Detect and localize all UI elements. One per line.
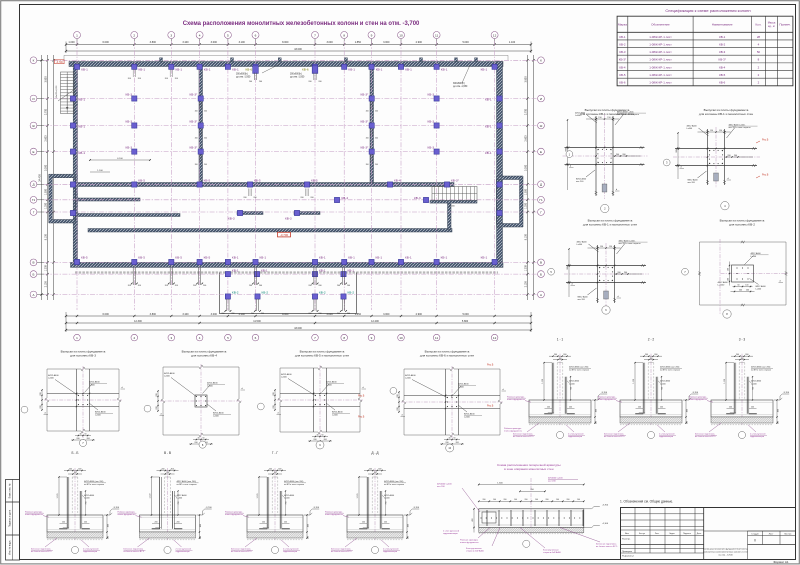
svg-text:Стадия: Стадия [751, 534, 759, 536]
svg-text:100: 100 [493, 499, 496, 501]
svg-text:Г1: Г1 [32, 198, 36, 202]
svg-text:4Ø12 А400: 4Ø12 А400 [577, 241, 588, 244]
axis bubble 4 bottom [196, 334, 203, 341]
svg-text:200: 200 [156, 406, 158, 409]
svg-text:для колонны КВ-4: для колонны КВ-4 [191, 354, 217, 358]
svg-text:2.700: 2.700 [44, 108, 47, 115]
svg-text:8Ø12 А400: 8Ø12 А400 [213, 412, 224, 415]
detail bubble 1b [601, 204, 609, 212]
svg-text:КВ-1: КВ-1 [441, 68, 448, 72]
svg-text:6: 6 [255, 33, 257, 37]
svg-text:L=600: L=600 [95, 415, 102, 417]
svg-text:8Ø12 А400: 8Ø12 А400 [576, 178, 587, 181]
svg-text:L=400: L=400 [177, 498, 184, 500]
grid axis row К [44, 59, 537, 61]
svg-text:по ВП в теле стержня: по ВП в теле стержня [177, 484, 197, 486]
bottom overall dimension [66, 329, 531, 331]
top overall dimension line [66, 50, 531, 52]
svg-text:400: 400 [595, 409, 597, 412]
section axis sec 3-3 [741, 354, 743, 425]
svg-text:3.300: 3.300 [524, 164, 527, 171]
svg-text:КВ-4: КВ-4 [719, 65, 726, 69]
svg-text:100: 100 [514, 499, 517, 501]
axis bubble К right [538, 57, 545, 64]
svg-text:200: 200 [195, 164, 198, 166]
axis bubble 12 bottom [491, 334, 498, 341]
svg-text:-3,700: -3,700 [602, 505, 609, 507]
svg-text:-3,700: -3,700 [601, 392, 608, 394]
axis bubble Д right [538, 181, 545, 188]
svg-text:200: 200 [249, 285, 252, 287]
svg-text:2 слоя рулонной: 2 слоя рулонной [568, 433, 583, 436]
svg-text:L=600: L=600 [326, 385, 333, 387]
svg-text:200: 200 [138, 78, 141, 80]
svg-text:200: 200 [204, 111, 207, 113]
svg-text:Б: Б [540, 272, 542, 276]
svg-text:200: 200 [310, 197, 313, 199]
svg-text:КВ-3*: КВ-3* [190, 145, 199, 149]
svg-text:1.200: 1.200 [44, 265, 47, 272]
svg-text:200: 200 [204, 138, 207, 140]
svg-text:200: 200 [193, 285, 196, 287]
svg-text:2: 2 [133, 33, 135, 37]
svg-text:КВ-4: КВ-4 [342, 196, 349, 200]
plan detail bubble KV-6 left [390, 387, 397, 394]
svg-text:6.000: 6.000 [103, 313, 110, 316]
section top dims sec V-V [157, 470, 179, 472]
svg-text:стержни 4хØ А400: стержни 4хØ А400 [466, 550, 485, 553]
svg-text:200: 200 [262, 522, 265, 524]
svg-text:Рис.В: Рис.В [762, 174, 769, 177]
title block [621, 508, 796, 560]
schema rebar bars [486, 510, 488, 526]
svg-text:200: 200 [397, 394, 399, 397]
svg-text:Ж: Ж [32, 124, 35, 128]
svg-text:L=400: L=400 [384, 498, 391, 500]
section rebar sec 2-2 [642, 363, 644, 414]
svg-text:4Ø12 А400 (шаг 200): 4Ø12 А400 (шаг 200) [751, 366, 771, 369]
svg-text:4Ø12 А400: 4Ø12 А400 [575, 112, 586, 115]
svg-text:КВ-1: КВ-1 [619, 35, 626, 39]
svg-text:8Ø12 А400: 8Ø12 А400 [578, 296, 589, 299]
axis bubble 5 bottom [225, 334, 232, 341]
section bubble sec B-B [71, 546, 78, 553]
svg-text:КВ-5: КВ-5 [204, 256, 211, 260]
svg-text:плиты фундамента: плиты фундамента [507, 398, 526, 401]
grid axis 12 [494, 41, 496, 310]
svg-text:КВ-1: КВ-1 [348, 68, 355, 72]
svg-text:КВ-3: КВ-3 [126, 92, 133, 96]
interior wall stub G 1 [237, 212, 263, 215]
svg-text:1-08Ж-КР-1 лист: 1-08Ж-КР-1 лист [649, 58, 672, 62]
svg-text:гидроизоляции: гидроизоляции [283, 551, 297, 553]
specification table [617, 16, 793, 86]
svg-text:L=400: L=400 [751, 383, 758, 385]
axis bubble 1 top [76, 39, 78, 44]
detail bubble 3a [548, 268, 555, 275]
plan detail bubble KV-5 bottom [316, 441, 324, 449]
svg-text:И: И [540, 97, 542, 101]
axis bubble 9 bottom [368, 334, 375, 341]
svg-text:3.800: 3.800 [150, 313, 157, 316]
svg-text:Наименование: Наименование [712, 23, 733, 27]
interior wall vertical axis 4 [199, 67, 203, 183]
grid axis 3 [170, 41, 172, 310]
svg-text:200: 200 [729, 407, 732, 409]
svg-text:2 слоя рулонной: 2 слоя рулонной [83, 548, 98, 551]
svg-text:200: 200 [554, 354, 557, 356]
grid axis 6 [255, 41, 257, 310]
svg-text:КВ-3: КВ-3 [428, 145, 435, 149]
svg-text:60: 60 [322, 435, 324, 437]
svg-text:из бетона класса В7.5: из бетона класса В7.5 [231, 551, 252, 553]
svg-text:300х600(h): 300х600(h) [453, 83, 465, 85]
dim stubs top wall axes 2 3 [132, 70, 134, 78]
interior wall stub G 2 [294, 212, 320, 215]
svg-text:200: 200 [318, 81, 321, 83]
svg-text:3: 3 [170, 33, 172, 37]
axis bubble Ж right [538, 122, 545, 129]
svg-text:КВ-3*: КВ-3* [719, 58, 727, 62]
section notes sec G-G [245, 538, 257, 547]
svg-text:100: 100 [407, 536, 409, 539]
svg-text:3.000: 3.000 [383, 41, 390, 44]
svg-text:200: 200 [249, 81, 252, 83]
section top dims sec 2-2 [640, 355, 662, 357]
svg-text:L=600: L=600 [213, 416, 220, 418]
svg-text:4Ø12 А400: 4Ø12 А400 [751, 252, 762, 255]
svg-text:Схема расположения монолитных: Схема расположения монолитных железобето… [183, 20, 420, 27]
svg-text:60: 60 [738, 285, 740, 287]
svg-text:1.100: 1.100 [509, 41, 516, 44]
svg-text:3.300: 3.300 [44, 164, 47, 171]
section notes sec D-D [345, 538, 357, 547]
svg-text:КВ-3: КВ-3 [414, 196, 421, 200]
svg-text:4Ø12 А400: 4Ø12 А400 [89, 381, 100, 384]
svg-text:для колонны КВ-3: для колонны КВ-3 [70, 354, 96, 358]
svg-text:200: 200 [300, 197, 303, 199]
svg-text:Рис.Б: Рис.Б [487, 405, 494, 408]
columns interior axis 2 [132, 96, 137, 101]
axis bubble И right [538, 95, 545, 102]
svg-text:КВ-5: КВ-5 [254, 179, 261, 183]
svg-text:L=600: L=600 [751, 256, 758, 258]
svg-text:4Ø12 А400: 4Ø12 А400 [458, 383, 469, 386]
section elevation mark sec 2-2 [683, 399, 689, 401]
axis bubble 3 top [170, 39, 172, 44]
svg-text:В: В [32, 261, 34, 265]
svg-text:8Ø12 А400: 8Ø12 А400 [464, 413, 475, 416]
axis bubble А left [37, 294, 44, 296]
svg-text:КВ-2: КВ-2 [232, 291, 239, 295]
svg-text:-3,700: -3,700 [783, 392, 790, 394]
axis bubble 6 top [255, 39, 257, 44]
svg-text:2.100: 2.100 [524, 281, 527, 288]
svg-text:КВ-3: КВ-3 [228, 217, 235, 221]
detail 4 leaders [745, 256, 754, 265]
svg-text:№док: №док [669, 532, 674, 535]
svg-text:из бетона класса В7.5: из бетона класса В7.5 [513, 436, 534, 438]
rebar outlets top wall big columns [253, 73, 255, 80]
detail bubble 2a [663, 159, 670, 166]
grid axis 8 [343, 41, 345, 310]
svg-text:200: 200 [313, 439, 316, 441]
svg-text:КВ-1: КВ-1 [376, 68, 383, 72]
svg-text:200: 200 [253, 197, 256, 199]
svg-text:300х600(h): 300х600(h) [236, 74, 248, 76]
svg-text:гидроизоляции: гидроизоляции [176, 551, 190, 553]
svg-text:на отм. -3,700: на отм. -3,700 [718, 555, 733, 557]
section slab sec 3-3 [711, 400, 773, 417]
detail 4 column square [732, 265, 754, 282]
section bedding sec 1-1 [529, 417, 591, 423]
svg-text:КВ-1: КВ-1 [232, 269, 239, 273]
svg-text:4Ø12 А400: 4Ø12 А400 [281, 373, 292, 376]
title block stage cells [747, 531, 749, 545]
svg-text:2 - 2: 2 - 2 [648, 338, 655, 342]
svg-text:3.000: 3.000 [326, 41, 333, 44]
svg-text:Спецификация к схеме расположе: Спецификация к схеме расположения колонн [665, 8, 750, 13]
svg-text:в зоне опирания монолитных сте: в зоне опирания монолитных стен [504, 467, 554, 471]
svg-text:-3,700: -3,700 [413, 507, 420, 509]
svg-text:200: 200 [62, 522, 65, 524]
svg-text:Е: Е [540, 150, 542, 154]
section slab sec D-D [347, 515, 403, 532]
svg-text:Листов: Листов [784, 534, 792, 536]
section rebar sec 1-1 [551, 363, 553, 414]
svg-text:плиты фундамента: плиты фундамента [118, 513, 137, 516]
svg-text:1-08Ж-КР-1 лист: 1-08Ж-КР-1 лист [649, 42, 672, 46]
svg-text:200: 200 [84, 522, 87, 524]
detail drawing vypusk KV-1 sten 2 [675, 148, 757, 150]
svg-text:160: 160 [727, 278, 729, 281]
plan detail bubble KV-6 bottom [446, 444, 454, 452]
svg-text:150: 150 [609, 246, 612, 248]
svg-text:L=400: L=400 [569, 383, 576, 385]
svg-text:100: 100 [307, 536, 309, 539]
section axis sec D-D [374, 468, 376, 540]
svg-text:Е: Е [32, 150, 34, 154]
svg-text:КВ-6: КВ-6 [246, 68, 253, 72]
svg-text:200: 200 [165, 285, 168, 287]
svg-text:Б - Б: Б - Б [71, 451, 78, 455]
svg-text:шаг 200 в теле стержня: шаг 200 в теле стержня [729, 127, 751, 129]
svg-text:240: 240 [739, 290, 742, 292]
svg-text:1.120: 1.120 [357, 494, 359, 499]
svg-text:8Ø12 А400: 8Ø12 А400 [95, 411, 106, 414]
svg-text:Г - Г: Г - Г [272, 451, 279, 455]
svg-text:для колонны КВ-6 и монолитных: для колонны КВ-6 и монолитных стен [420, 354, 474, 358]
svg-text:КВ-3: КВ-3 [126, 145, 133, 149]
svg-text:4Ø12 А400 (шаг 200): 4Ø12 А400 (шаг 200) [284, 480, 304, 483]
svg-text:КВ-1: КВ-1 [261, 269, 268, 273]
svg-text:200: 200 [504, 499, 507, 501]
grid axis row Г1 [44, 199, 537, 201]
svg-text:-3,700: -3,700 [280, 233, 289, 237]
section bedding sec 3-3 [711, 417, 773, 423]
axis bubble 6 bottom [252, 334, 259, 341]
plan detail bubble KV-4 left [144, 405, 151, 412]
svg-text:КВ-2: КВ-2 [319, 291, 326, 295]
svg-text:5.000: 5.000 [462, 41, 469, 44]
svg-text:200: 200 [76, 438, 79, 440]
detail bubble 1a [566, 151, 573, 158]
svg-text:100: 100 [577, 499, 580, 501]
plan detail bubble KV-4 bottom [199, 441, 206, 448]
section axis sec G-G [274, 468, 276, 540]
elevation mark centre [278, 232, 291, 237]
elevation mark top left [55, 60, 65, 64]
svg-text:1.500: 1.500 [44, 188, 47, 195]
svg-text:4Ø12 А400 (шаг 200): 4Ø12 А400 (шаг 200) [569, 366, 589, 369]
schema left dims [473, 509, 475, 533]
section elevation mark sec G-G [304, 514, 310, 516]
svg-text:43.000: 43.000 [294, 48, 302, 51]
svg-text:КВ-1: КВ-1 [79, 125, 86, 129]
svg-text:КВ-1: КВ-1 [405, 256, 412, 260]
svg-text:КВ-3*: КВ-3* [190, 92, 199, 96]
grid axis 10 [400, 41, 402, 310]
svg-text:700: 700 [86, 502, 88, 505]
section bubble sec D-D [371, 546, 378, 553]
axis bubble Е right [538, 148, 545, 155]
svg-text:КВ-1: КВ-1 [719, 35, 726, 39]
svg-text:11.500: 11.500 [253, 320, 261, 323]
svg-text:200: 200 [736, 354, 739, 356]
axis bubble 2 bottom [131, 334, 138, 341]
columns interior axis 11 [434, 96, 439, 101]
svg-text:200: 200 [273, 405, 275, 408]
svg-text:Взам. инв. №: Взам. инв. № [9, 483, 12, 498]
svg-text:КВ-1: КВ-1 [204, 68, 211, 72]
svg-text:60: 60 [80, 434, 82, 436]
svg-text:КВ-3: КВ-3 [619, 50, 626, 54]
axis bubble 12 top [494, 39, 496, 44]
svg-text:шаг 200: шаг 200 [578, 299, 586, 301]
svg-text:шаг 200 в теле стержня: шаг 200 в теле стержня [617, 114, 639, 116]
grid axis row Г [44, 211, 537, 213]
svg-text:плиты фундамента: плиты фундамента [25, 513, 44, 516]
svg-text:плиты фундамента: плиты фундамента [225, 513, 244, 516]
grid axis row А [44, 294, 537, 296]
svg-text:L=600: L=600 [332, 415, 339, 417]
svg-text:КВ-3*: КВ-3* [190, 119, 199, 123]
grid axis 11 [436, 41, 438, 310]
svg-text:КВ-3: КВ-3 [285, 217, 292, 221]
section slab sec B-B [47, 515, 103, 532]
svg-text:200: 200 [483, 499, 486, 501]
svg-text:150: 150 [607, 117, 610, 119]
svg-text:Формат А1: Формат А1 [773, 560, 788, 564]
stair arrow top left [66, 76, 68, 110]
svg-text:3 - 3: 3 - 3 [739, 338, 746, 342]
svg-text:900: 900 [565, 148, 567, 151]
svg-text:200: 200 [397, 407, 399, 410]
svg-text:150: 150 [719, 130, 722, 132]
axis bubble Г right [538, 209, 545, 216]
svg-text:8Ø12 А400: 8Ø12 А400 [688, 179, 699, 182]
svg-text:400: 400 [777, 409, 779, 412]
svg-text:КВ-3: КВ-3 [428, 92, 435, 96]
svg-text:8.000: 8.000 [282, 41, 289, 44]
svg-text:100: 100 [686, 421, 688, 424]
svg-text:КВ-3: КВ-3 [126, 119, 133, 123]
svg-text:1.200: 1.200 [524, 265, 527, 272]
svg-text:КВ-1: КВ-1 [81, 68, 88, 72]
svg-text:1.000: 1.000 [449, 206, 455, 208]
grid axis row В [44, 261, 537, 263]
plan detail bubble KV-3 bottom [79, 439, 86, 446]
section bubble sec 2-2 [647, 431, 654, 438]
svg-text:200: 200 [284, 522, 287, 524]
grid axis row Е [44, 151, 537, 153]
svg-text:300: 300 [745, 354, 748, 356]
schema bubble [523, 540, 530, 547]
svg-text:200: 200 [318, 285, 321, 287]
grid axis 5 [227, 41, 229, 310]
columns on wall axis D [132, 182, 137, 187]
axis bubble В right [538, 259, 545, 266]
detail bubble 4b [723, 310, 731, 318]
section bubble sec 3-3 [738, 431, 745, 438]
wall right perimeter [497, 62, 503, 263]
svg-text:Инв. № подл.: Инв. № подл. [9, 540, 12, 555]
svg-text:Д: Д [540, 183, 542, 187]
svg-text:Разработал: Разработал [622, 556, 635, 558]
svg-text:2.600: 2.600 [524, 135, 527, 142]
schema elevation marks [584, 507, 600, 509]
section elevation mark sec 3-3 [774, 399, 780, 401]
svg-text:Д: Д [32, 183, 34, 187]
svg-text:КВ-2: КВ-2 [348, 291, 355, 295]
svg-text:по ВП в теле стержня: по ВП в теле стержня [284, 484, 304, 486]
svg-text:А: А [32, 293, 34, 297]
plan detail bubble KV-3 left [21, 406, 28, 413]
section notes sec 2-2 [618, 423, 630, 432]
svg-text:4Ø12 А400 L=600,: 4Ø12 А400 L=600, [619, 239, 636, 242]
svg-text:1.120: 1.120 [542, 379, 544, 384]
section notes sec V-V [138, 538, 150, 547]
svg-text:60: 60 [198, 438, 200, 440]
interior wall vertical stair side [448, 203, 452, 230]
section top dims sec B-B [64, 470, 86, 472]
svg-text:300: 300 [78, 468, 81, 470]
axis bubble 7 top [314, 39, 316, 44]
svg-text:Лист: Лист [655, 533, 659, 535]
svg-text:900: 900 [567, 266, 569, 269]
interior wall axis D [76, 183, 455, 187]
svg-text:1. Обозначения см. Общие данны: 1. Обозначения см. Общие данные. [620, 500, 673, 504]
stair top left [61, 72, 75, 114]
wall left perimeter [73, 62, 77, 263]
svg-text:шаг 200: шаг 200 [576, 181, 584, 183]
svg-text:для колонны КВ-2: для колонны КВ-2 [729, 223, 755, 227]
svg-text:8: 8 [343, 33, 345, 37]
grid axis row Д [44, 183, 537, 185]
grid axis 9 [371, 41, 373, 310]
svg-text:L=600: L=600 [89, 385, 96, 387]
svg-text:Проверил: Проверил [622, 551, 633, 553]
svg-text:200: 200 [138, 285, 141, 287]
svg-text:700: 700 [571, 387, 573, 390]
wall bottom perimeter [71, 262, 504, 267]
svg-text:100: 100 [200, 536, 202, 539]
svg-text:200: 200 [369, 468, 372, 470]
axis bubble 10 top [400, 39, 402, 44]
svg-text:ед., кг: ед., кг [768, 25, 775, 28]
svg-text:6.000: 6.000 [103, 41, 110, 44]
section axis sec B-B [74, 468, 76, 540]
